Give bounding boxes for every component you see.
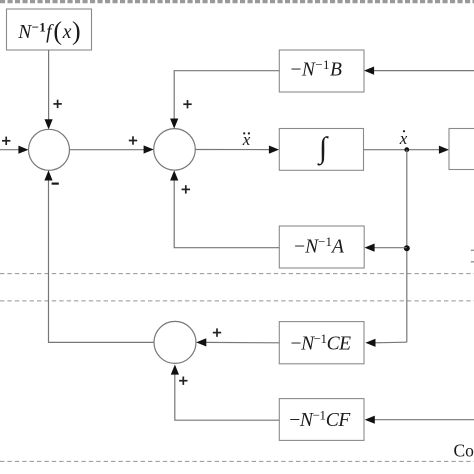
node dot on xdot line <box>404 147 409 152</box>
wire into -N^-1 CF from right edge <box>365 416 474 424</box>
wire node to -N^-1 A <box>365 244 407 252</box>
wire from N^-1 f(x) down to summing junction 1 <box>45 50 53 129</box>
plus label (junction 2 bottom input) <box>182 185 190 193</box>
plus label (f(x) input) <box>53 100 61 108</box>
wire junction 2 to integrator, label xddot <box>195 146 279 154</box>
plus label (junction 2 left input) <box>129 136 137 144</box>
plus label (external input) <box>2 137 10 145</box>
plus label (junction 2 top input) <box>183 100 191 108</box>
label xddot <box>242 130 251 149</box>
block -N^-1 CE <box>279 322 364 364</box>
plus label (junction 3 bottom input) <box>179 377 187 385</box>
wire vertical to -N^-1 CE <box>365 339 406 347</box>
vertical feedback wire from xdot node <box>406 150 408 343</box>
svg-text:Con: Con <box>454 440 474 460</box>
dashed separator line 2 <box>0 300 474 302</box>
right block (clipped at edge) <box>449 129 474 170</box>
svg-text:∫: ∫ <box>317 132 329 167</box>
dashed separator line 1 <box>0 273 474 275</box>
bottom dashed boundary line <box>0 460 474 462</box>
label xdot <box>399 129 408 148</box>
integrator block <box>279 129 363 171</box>
wire junction 3 output to junction 1 bottom (minus) <box>44 170 154 342</box>
plus label (junction 3 right input) <box>213 328 221 336</box>
wire integrator to right block, label xdot <box>364 146 450 154</box>
summing junction 3 <box>154 321 196 363</box>
wire -N^-1 CF output to junction 3 bottom <box>171 365 279 421</box>
block -N^-1 CF <box>279 399 364 441</box>
top dashed boundary line <box>0 0 474 3</box>
wire -N^-1 CE output into junction 3 <box>196 338 279 346</box>
external input wire into summing junction 1 <box>0 146 29 154</box>
summing junction 1 <box>29 129 70 170</box>
junction dot on feedback wire <box>404 245 410 251</box>
small cut-off marks at right edge <box>471 250 474 261</box>
block -N^-1 B <box>279 50 364 92</box>
wire -N^-1 A output to junction 2 bottom <box>170 170 279 247</box>
wire -N^-1 B output to junction 2 top <box>170 71 279 129</box>
summing junction 2 <box>154 129 196 171</box>
minus label (feedback into junction 1) <box>52 183 59 185</box>
block -N^-1 A <box>279 226 364 268</box>
wire junction 1 to junction 2 <box>70 145 154 153</box>
wire into -N^-1 B from right edge <box>364 67 474 75</box>
block N^-1 f(x) <box>7 9 92 50</box>
